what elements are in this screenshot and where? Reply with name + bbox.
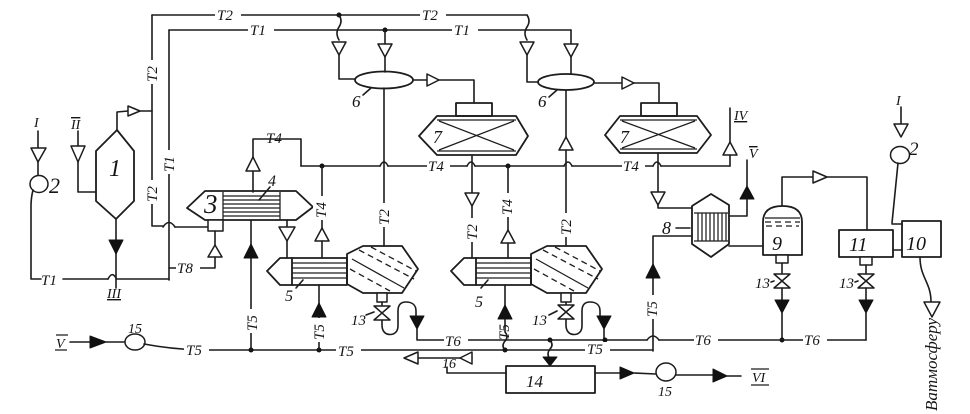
arrow column1 bottoms (109, 219, 123, 288)
wire separator6a vapor to dryer 7a (413, 74, 474, 103)
wire seal loop 5b to T6 (566, 302, 611, 340)
stream V inlet bottom left (55, 335, 126, 352)
svg-text:Т5: Т5 (497, 324, 513, 340)
stream V inlet to economizer 8 (729, 147, 759, 216)
wire heater3 vapor riser to T4 (246, 139, 301, 192)
label T5 rotated on riser 5b (497, 324, 513, 340)
economizer 8 (662, 194, 729, 257)
label T1 on bottom line (41, 273, 57, 289)
pump 15b (656, 363, 676, 400)
stream VI outlet (676, 369, 769, 386)
funnel on T1 drop (378, 44, 392, 72)
wire T4 down to evaporator 5a (315, 166, 329, 258)
wire tank9 overhead to apparatus 11 (782, 171, 867, 230)
svg-text:Т6: Т6 (445, 334, 461, 350)
wire T5 riser to heater 3 (244, 220, 258, 350)
svg-text:Т4: Т4 (500, 199, 516, 215)
funnel on T2 drop (332, 42, 355, 79)
wire dryer7a drain to evaporator 5b (465, 155, 479, 258)
label T5 rotated on riser economizer8 (644, 295, 661, 319)
pump 15a (125, 322, 145, 350)
svg-text:15: 15 (658, 385, 672, 400)
svg-text:13: 13 (839, 276, 854, 292)
svg-text:Т5: Т5 (645, 301, 661, 317)
column 1 (96, 130, 134, 219)
label T2 rotated on left vertical upper (144, 60, 161, 84)
wire pump2r to apparatus 10 (892, 163, 902, 224)
label T2 rotated on left vertical (144, 180, 161, 204)
tank 9 (763, 206, 802, 255)
apparatus 10 (893, 221, 941, 257)
svg-text:Т4: Т4 (314, 202, 330, 218)
wire T5 riser to evaporator 5a (312, 285, 326, 350)
svg-text:13: 13 (351, 313, 366, 329)
condensate pot of heater 3 (208, 220, 223, 231)
svg-text:2: 2 (909, 139, 919, 160)
separator 6b (538, 74, 594, 111)
separator 6a (352, 72, 413, 112)
label T4 on main line (427, 159, 450, 175)
svg-text:Т4: Т4 (428, 159, 444, 175)
valve 13a on evaporator 5a (351, 293, 390, 329)
label T8 on pot drain (176, 261, 200, 277)
wire T6 main line (418, 336, 866, 342)
svg-text:II: II (70, 118, 82, 133)
svg-text:8: 8 (662, 218, 671, 238)
label T2 rotated on separator6a liquid (376, 203, 393, 227)
label T4 rotated on riser 5a (313, 196, 330, 220)
wire T5 riser to economizer 8 (646, 236, 692, 351)
svg-text:Т2: Т2 (217, 8, 233, 24)
label T4 on heater3 riser (266, 131, 282, 147)
evaporator 5a vapor body (285, 246, 418, 305)
svg-text:Т2: Т2 (145, 186, 161, 202)
wire T2 end drop to separator 6b (520, 15, 538, 82)
svg-text:Т5: Т5 (312, 324, 328, 340)
evaporator 5b vapor body (475, 246, 602, 311)
wire T4 down to evaporator 5b (501, 166, 515, 258)
label T1 rotated on left vertical (161, 150, 178, 174)
wire heater3 drain to evaporator 5a (279, 220, 295, 258)
svg-text:Т6: Т6 (695, 333, 711, 349)
wire T1 left vertical (168, 30, 170, 280)
apparatus 11 (839, 230, 893, 257)
wire separator6b liquid to evaporator 5b (559, 90, 573, 246)
funnel on stream I (31, 148, 46, 175)
tube bundle 4 of heater 3 (223, 173, 280, 220)
svg-text:Т2: Т2 (465, 224, 481, 240)
wire T5 main line (144, 344, 653, 352)
svg-text:14: 14 (526, 372, 544, 391)
label T5 on main line third (585, 342, 610, 358)
collector 14 (506, 366, 595, 393)
svg-text:Т4: Т4 (266, 131, 282, 147)
svg-text:5: 5 (475, 294, 483, 311)
wire T2 left vertical (152, 15, 208, 227)
svg-text:13: 13 (532, 313, 547, 329)
funnel on stream II (71, 146, 96, 192)
label T5 rotated on riser 5a (311, 318, 328, 342)
node T1 drop to separator 6a (383, 28, 387, 44)
wire T2 header (152, 14, 527, 16)
svg-text:Т8: Т8 (177, 261, 193, 277)
svg-text:IV: IV (733, 109, 749, 124)
svg-text:Ватмосферу: Ватмосферу (922, 317, 941, 411)
evaporator 5a heater head (267, 258, 347, 285)
label T2 rotated on dryer7a drain (464, 218, 481, 242)
svg-text:V: V (749, 147, 759, 162)
label T6 on main line second (694, 333, 718, 349)
svg-text:VI: VI (752, 371, 767, 386)
label T2 rotated on separator6b liquid (558, 213, 575, 237)
svg-text:Т4: Т4 (623, 159, 639, 175)
svg-text:Т1: Т1 (454, 23, 470, 39)
wire collector14 return 16 (404, 352, 506, 373)
wire apparatus10 vent to atmosphere (920, 257, 941, 411)
dryer 7a (419, 103, 528, 155)
pump 2 (30, 173, 60, 198)
valve 13c under tank 9 (755, 255, 790, 342)
svg-text:10: 10 (906, 233, 926, 255)
svg-text:Т2: Т2 (422, 8, 438, 24)
svg-text:Т5: Т5 (186, 343, 202, 359)
wire column1 overhead (117, 106, 152, 130)
wire economizer8 to tank 9 (729, 245, 763, 247)
svg-text:Т1: Т1 (41, 273, 57, 289)
svg-text:16: 16 (442, 357, 456, 372)
svg-text:9: 9 (772, 233, 782, 255)
stream IV takeoff (723, 108, 749, 166)
label T1 on header second (452, 23, 478, 39)
label T2 on header (215, 8, 241, 24)
svg-text:Т2: Т2 (377, 209, 393, 225)
svg-text:15: 15 (128, 322, 142, 337)
svg-text:Т1: Т1 (250, 23, 266, 39)
valve 13d under apparatus 11 (839, 257, 874, 340)
wire pump2 to T1 bottom (31, 190, 41, 279)
label T5 rotated on riser heater3 (244, 309, 261, 333)
svg-text:III: III (106, 287, 122, 302)
stream II inlet (70, 118, 82, 146)
svg-text:Т2: Т2 (145, 66, 161, 82)
svg-text:13: 13 (755, 276, 770, 292)
svg-text:2: 2 (49, 173, 60, 198)
label T4 rotated on riser 5b (499, 193, 516, 217)
wire T1 bottom with junction bump (63, 275, 169, 279)
wire separator6b vapor to dryer 7b (594, 77, 659, 103)
pump 2 right (891, 139, 920, 164)
svg-text:7: 7 (620, 127, 630, 147)
svg-text:11: 11 (849, 234, 868, 256)
label T1 on header (248, 23, 274, 39)
svg-text:3: 3 (203, 189, 218, 219)
wire T1 header (169, 29, 571, 31)
label T5 on main line second (336, 344, 361, 360)
wire T5 riser to evaporator 5b (498, 285, 512, 350)
wire collector14 outlet to pump 15b (595, 367, 656, 379)
wire separator6a liquid to evaporator 5a (383, 88, 385, 246)
wire T4 main line (301, 162, 730, 168)
stream I inlet left (33, 116, 40, 148)
label T5 on main line (184, 343, 209, 359)
wire T6 drop to collector 14 (543, 340, 557, 366)
node T2 drop to separator 6a (337, 13, 341, 40)
label T6 on main line (444, 334, 468, 350)
svg-text:Т5: Т5 (245, 315, 261, 331)
label T6 on main line third (803, 333, 827, 349)
svg-text:6: 6 (352, 92, 361, 111)
evaporator 5b heater head (451, 258, 531, 285)
svg-text:Т6: Т6 (804, 333, 820, 349)
stream III marker (106, 287, 122, 302)
svg-text:Т1: Т1 (162, 156, 178, 172)
svg-text:Т5: Т5 (587, 342, 603, 358)
label T4 on main line second (622, 159, 645, 175)
svg-text:7: 7 (433, 127, 443, 147)
svg-text:4: 4 (268, 173, 276, 190)
svg-text:1: 1 (109, 156, 121, 182)
wire T1 end drop to separator 6b (564, 30, 578, 74)
svg-text:Т2: Т2 (559, 219, 575, 235)
wire seal loop 5a to T6 (382, 302, 424, 340)
svg-text:6: 6 (538, 92, 547, 111)
heater 3 shell (187, 189, 313, 220)
svg-text:5: 5 (285, 288, 293, 305)
valve 13b on evaporator 5b (532, 293, 574, 329)
wire dryer7b drain to economizer 8 (651, 153, 692, 208)
dryer 7b (605, 103, 711, 153)
label T2 on header second (420, 8, 446, 24)
svg-text:Т5: Т5 (338, 344, 354, 360)
stream I inlet right (894, 94, 908, 137)
wire pot to T8 (169, 231, 222, 268)
